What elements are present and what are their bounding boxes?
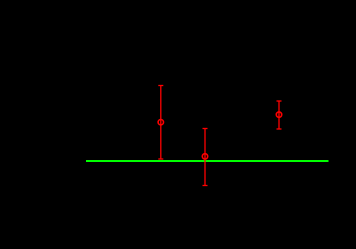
data point 2 error bar [203, 129, 208, 186]
data point 3 marker [276, 112, 281, 117]
data point 1 marker [158, 120, 163, 125]
data point 2 marker [202, 154, 207, 159]
green fit line [86, 160, 329, 162]
data point 1 error bar [158, 86, 163, 160]
data point 3 error bar [277, 101, 282, 129]
